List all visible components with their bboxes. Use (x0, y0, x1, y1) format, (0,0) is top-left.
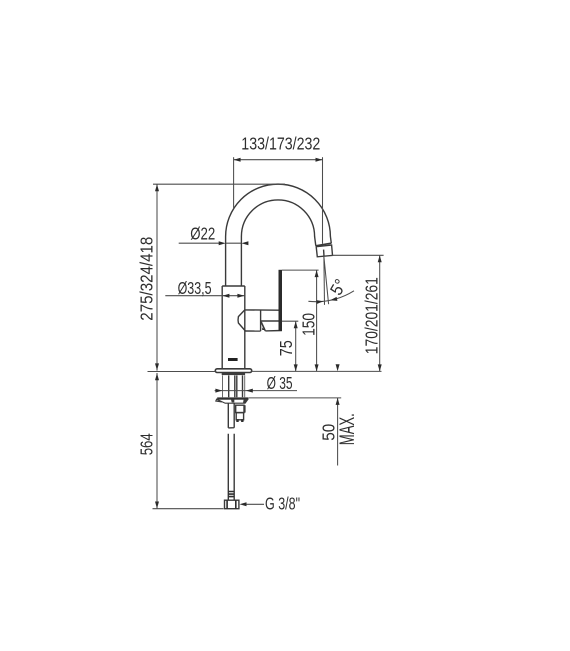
check valve block right outline (244, 405, 246, 412)
svg-text:G 3/8": G 3/8" (265, 493, 300, 513)
dim 75 line (295, 321, 297, 371)
spout gooseneck arc inner (241, 200, 315, 286)
dim 150 top ext (282, 269, 319, 271)
cartridge cap bullet nose (238, 310, 245, 331)
arrow 275 top (155, 184, 159, 191)
svg-text:150: 150 (298, 313, 318, 336)
arrow 133 left (234, 158, 241, 162)
spout gooseneck arc outer (226, 184, 332, 286)
angle dim arc (308, 291, 354, 302)
spray line vertical (323, 257, 326, 305)
arrow G38 leader (240, 502, 247, 506)
aerator outlet (316, 245, 332, 257)
arrow 133 right (316, 158, 323, 162)
svg-text:Ø22: Ø22 (190, 223, 215, 243)
check valve dark foot right (241, 419, 243, 422)
cartridge lower notch diagonal (261, 322, 265, 330)
arrow dia22 right (241, 241, 248, 245)
clamp dark detail right (243, 399, 248, 403)
dim 564 line (156, 373, 158, 509)
base flange (215, 369, 251, 373)
arrow 564 bottom (155, 502, 159, 509)
svg-text:170/201/261: 170/201/261 (362, 277, 382, 354)
hose connector bands (228, 492, 234, 497)
dim 50 max line (337, 398, 339, 466)
dim 133/173/232 line (234, 159, 323, 161)
body left wall (221, 286, 223, 369)
body right wall (244, 286, 246, 369)
deck surface line right (252, 370, 382, 372)
lever handle bar (279, 270, 283, 331)
svg-text:133/173/232: 133/173/232 (241, 134, 320, 154)
cartridge lower block bottom (265, 330, 282, 332)
deck surface line left (148, 371, 216, 373)
arrow dia35 left (215, 389, 222, 393)
dim 275/324/418 top ext (153, 183, 285, 185)
dim 564 bottom ext (153, 508, 224, 510)
arrow dia33 left (222, 294, 229, 298)
logo mark on body (228, 358, 238, 361)
arrow dia35 right (246, 389, 253, 393)
arrow 75 top (294, 321, 298, 328)
clamp top bar (217, 397, 248, 399)
arrow 564 top (155, 373, 159, 380)
shank vertical lines (222, 375, 224, 397)
clamp dark detail center (231, 399, 234, 402)
svg-text:Ø 35: Ø 35 (267, 373, 293, 393)
base gasket strip (222, 373, 245, 376)
aerator center tick (323, 250, 325, 257)
hose end nut (225, 500, 239, 509)
dim 275/324/418 line (156, 184, 158, 370)
arrow 170 top (378, 255, 382, 262)
arrow 50max bottom (336, 398, 340, 405)
arrow dia33 right (237, 294, 244, 298)
svg-text:75: 75 (276, 340, 296, 356)
check valve block lower (236, 413, 243, 420)
clamp left flap (216, 399, 222, 402)
deck underside line (248, 397, 341, 399)
check valve block upper (236, 405, 244, 412)
G 3/8 leader line (246, 503, 264, 505)
svg-text:275/324/418: 275/324/418 (136, 237, 156, 321)
dim Ø22 line (179, 242, 242, 244)
hose segment 1 (228, 403, 234, 428)
cartridge top edge (245, 309, 279, 311)
dim Ø33,5 line (165, 295, 244, 297)
arrow dia22 left (219, 241, 226, 245)
cartridge bottom edge (245, 330, 260, 332)
arrow 150 top (315, 270, 319, 277)
arrow angle left (316, 300, 323, 304)
dim 150 line (316, 270, 318, 371)
hose end nut facets (227, 500, 236, 509)
check valve dark foot left (236, 419, 238, 422)
arrow 150 bottom (315, 364, 319, 371)
hose segment 2 (228, 434, 234, 500)
arrow 275 bottom (155, 363, 159, 370)
cartridge lower block left slant (261, 322, 265, 331)
cartridge cap inner vertical (260, 310, 262, 331)
dim 170/201/261 top ext (332, 254, 384, 256)
svg-text:564: 564 (136, 433, 156, 455)
dim 170/201/261 line (379, 255, 381, 371)
arrow angle right (330, 297, 337, 301)
svg-text:MAX.: MAX. (336, 413, 359, 445)
body top step (222, 285, 245, 287)
cartridge mid line (261, 320, 282, 322)
clamp front face (217, 399, 248, 403)
svg-text:Ø33,5: Ø33,5 (178, 278, 212, 298)
arrow 75 bottom (294, 364, 298, 371)
cartridge lower notch triangle (262, 327, 264, 330)
spout end cut line (316, 243, 332, 246)
dim 75 top ext (282, 320, 298, 322)
dim 133/173/232 ext right (322, 157, 324, 244)
arrow 170 bottom (378, 364, 382, 371)
dim Ø35 line (215, 390, 297, 392)
spray line tilted 5deg (324, 257, 329, 304)
arrow 50max top (336, 364, 340, 371)
dim 133/173/232 ext left (233, 157, 235, 209)
